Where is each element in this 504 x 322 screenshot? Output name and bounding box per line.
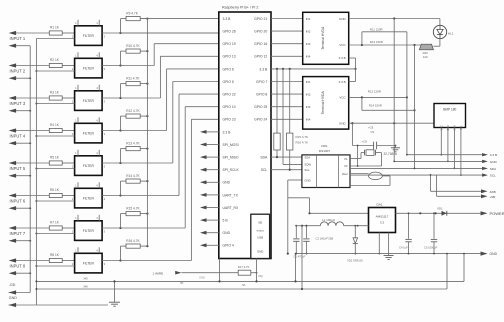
svg-text:R2 1K: R2 1K: [50, 58, 60, 62]
svg-text:L1 100uH: L1 100uH: [322, 218, 335, 222]
svg-text:+5B: +5B: [490, 195, 496, 199]
svg-text:C4 1uF: C4 1uF: [399, 245, 408, 249]
svg-text:X1: X1: [344, 157, 348, 161]
svg-text:GND: GND: [9, 296, 17, 300]
svg-text:GPIO 24: GPIO 24: [254, 118, 267, 122]
svg-text:+C8: +C8: [362, 140, 368, 144]
svg-text:R8 1K: R8 1K: [50, 253, 60, 257]
svg-text:IN1: IN1: [306, 17, 311, 21]
svg-text:3.3 B: 3.3 B: [259, 67, 268, 71]
svg-text:INPUT 4: INPUT 4: [10, 134, 26, 139]
svg-text:UART_TX: UART_TX: [223, 193, 239, 197]
svg-text:FILTER: FILTER: [83, 261, 95, 265]
svg-text:-GD: -GD: [9, 283, 16, 287]
svg-text:FILTER: FILTER: [83, 196, 95, 200]
svg-text:SPI_SCLK: SPI_SCLK: [223, 168, 240, 172]
svg-text:SPI_MOSI: SPI_MOSI: [223, 143, 239, 147]
svg-text:R12 120R: R12 120R: [368, 90, 381, 94]
svg-text:R6 1K: R6 1K: [50, 188, 60, 192]
svg-text:POWER: POWER: [490, 211, 504, 216]
svg-text:J46: J46: [83, 284, 88, 288]
svg-text:FILTER: FILTER: [83, 99, 95, 103]
svg-text:GND: GND: [223, 181, 231, 185]
svg-text:R15 4.7K: R15 4.7K: [296, 135, 309, 139]
svg-text:+C8: +C8: [368, 126, 374, 130]
svg-text:R12 4.7K: R12 4.7K: [126, 109, 140, 113]
svg-text:32,768Hz: 32,768Hz: [384, 152, 398, 156]
svg-text:GND: GND: [339, 121, 347, 125]
svg-text:VCC: VCC: [339, 43, 346, 47]
svg-text:DA1: DA1: [377, 202, 383, 206]
svg-text:R11 120R: R11 120R: [370, 27, 383, 31]
svg-text:GPIO 21: GPIO 21: [254, 17, 267, 21]
svg-text:SCL: SCL: [460, 125, 463, 130]
svg-text:Vbat: Vbat: [342, 172, 348, 176]
svg-text:5 B: 5 B: [223, 219, 229, 223]
svg-text:Terminal HVDA: Terminal HVDA: [321, 91, 325, 115]
svg-text:IN3: IN3: [306, 105, 311, 109]
svg-text:R5 1K: R5 1K: [50, 156, 60, 160]
svg-text:GPIO 8: GPIO 8: [256, 93, 267, 97]
svg-text:INPUT 7: INPUT 7: [10, 231, 26, 236]
svg-text:IN2: IN2: [306, 29, 311, 33]
svg-text:GPIO 26: GPIO 26: [223, 30, 236, 34]
svg-text:SQW: SQW: [304, 163, 311, 167]
svg-text:120: 120: [423, 55, 428, 59]
svg-text:SCL: SCL: [304, 168, 310, 172]
svg-text:R1 1K: R1 1K: [50, 26, 60, 30]
svg-text:INPUT 5: INPUT 5: [10, 166, 26, 171]
svg-text:GND: GND: [447, 125, 450, 131]
svg-text:SDA: SDA: [490, 167, 497, 171]
svg-text:SCL: SCL: [490, 174, 496, 178]
svg-text:VD1: VD1: [437, 206, 443, 210]
svg-text:IN4: IN4: [306, 118, 311, 122]
svg-text:X2: X2: [344, 164, 348, 168]
svg-text:AKB: AKB: [490, 190, 496, 194]
svg-text:FILTER: FILTER: [83, 164, 95, 168]
svg-text:1 WIRE: 1 WIRE: [153, 271, 164, 275]
svg-text:SDA: SDA: [260, 156, 268, 160]
svg-text:3.3 B: 3.3 B: [339, 56, 346, 60]
svg-text:5B: 5B: [180, 281, 184, 285]
svg-text:3.3 B: 3.3 B: [223, 130, 232, 134]
svg-text:INPUT 2: INPUT 2: [10, 69, 26, 74]
svg-text:3.3 B: 3.3 B: [339, 80, 346, 84]
svg-text:R10 4.7K: R10 4.7K: [126, 44, 140, 48]
svg-text:C9: C9: [371, 130, 375, 134]
svg-text:HL1: HL1: [448, 31, 454, 35]
svg-text:R4 1K: R4 1K: [50, 123, 60, 127]
svg-text:GPIO 12: GPIO 12: [254, 55, 267, 59]
svg-text:UART_RX: UART_RX: [223, 206, 240, 210]
svg-text:FILTER: FILTER: [83, 229, 95, 233]
svg-text:GPIO 25: GPIO 25: [254, 105, 267, 109]
svg-text:GND: GND: [199, 276, 205, 280]
svg-text:GPIO 16: GPIO 16: [254, 42, 267, 46]
svg-text:INPUT 8: INPUT 8: [10, 264, 26, 269]
svg-text:AMS1117: AMS1117: [376, 215, 389, 219]
svg-text:5B: 5B: [242, 283, 246, 287]
svg-text:R11 4.7K: R11 4.7K: [126, 76, 140, 80]
svg-text:J45: J45: [83, 277, 88, 281]
svg-text:GPIO 20: GPIO 20: [254, 30, 267, 34]
svg-text:3.3: 3.3: [380, 221, 385, 225]
svg-text:R9 4.7K: R9 4.7K: [126, 11, 138, 15]
svg-text:GND: GND: [490, 252, 498, 256]
svg-text:GND: GND: [304, 178, 310, 182]
svg-text:DS1307: DS1307: [319, 149, 330, 153]
svg-text:C2 160uF*25B: C2 160uF*25B: [316, 237, 334, 241]
svg-text:VD2 SR5100: VD2 SR5100: [347, 258, 363, 262]
svg-text:IN2: IN2: [306, 92, 311, 96]
svg-text:USB: USB: [257, 236, 263, 240]
svg-text:INPUT 1: INPUT 1: [10, 36, 26, 41]
svg-text:GPIO 7: GPIO 7: [256, 80, 267, 84]
svg-text:IN1: IN1: [306, 80, 311, 84]
svg-text:VCC: VCC: [339, 96, 346, 100]
svg-text:R13 4.7K: R13 4.7K: [126, 141, 140, 145]
svg-text:BMP 180: BMP 180: [443, 107, 456, 111]
svg-text:IN3: IN3: [306, 42, 311, 46]
svg-text:GPIO 23: GPIO 23: [223, 118, 236, 122]
svg-text:DD1: DD1: [321, 144, 327, 148]
svg-text:GPIO 19: GPIO 19: [223, 42, 236, 46]
svg-text:GPIO 22: GPIO 22: [223, 93, 236, 97]
svg-text:R7 1K: R7 1K: [50, 221, 60, 225]
svg-text:INPUT 6: INPUT 6: [10, 199, 26, 204]
svg-text:GPIO 4: GPIO 4: [223, 244, 234, 248]
svg-text:SDA: SDA: [454, 125, 457, 130]
svg-text:Raspberry Pi B+ / Pi 2: Raspberry Pi B+ / Pi 2: [222, 6, 258, 10]
svg-text:FILTER: FILTER: [83, 131, 95, 135]
svg-text:Terminal HVDA: Terminal HVDA: [321, 26, 325, 50]
svg-text:FILTER: FILTER: [83, 34, 95, 38]
svg-text:VCC: VCC: [440, 125, 443, 130]
svg-text:GND: GND: [490, 160, 498, 164]
svg-text:GND: GND: [257, 250, 263, 254]
svg-text:GPIO 5: GPIO 5: [223, 80, 234, 84]
svg-text:micro: micro: [257, 229, 264, 233]
svg-text:3.3 B: 3.3 B: [223, 17, 232, 21]
svg-text:GPIO 10: GPIO 10: [223, 105, 236, 109]
svg-text:R14 4.7K: R14 4.7K: [126, 174, 140, 178]
svg-text:R16 4.7K: R16 4.7K: [296, 141, 309, 145]
svg-text:SCL: SCL: [261, 168, 268, 172]
svg-text:GPIO 13: GPIO 13: [223, 55, 236, 59]
svg-text:GPIO 6: GPIO 6: [223, 67, 234, 71]
svg-text:IN4: IN4: [306, 55, 311, 59]
svg-text:R16 4.7K: R16 4.7K: [126, 239, 140, 243]
svg-text:R13 150R: R13 150R: [370, 40, 383, 44]
svg-text:GND: GND: [223, 231, 231, 235]
svg-text:R14 150R: R14 150R: [369, 104, 382, 108]
svg-text:3.3 B: 3.3 B: [490, 153, 497, 157]
svg-text:FILTER: FILTER: [83, 66, 95, 70]
svg-text:GND: GND: [339, 17, 347, 21]
svg-text:R15 4.7K: R15 4.7K: [126, 206, 140, 210]
svg-text:SPI_MISO: SPI_MISO: [223, 156, 239, 160]
svg-text:C5 1000uF: C5 1000uF: [424, 245, 438, 249]
svg-text:5B: 5B: [258, 221, 262, 225]
svg-text:SDA: SDA: [304, 155, 310, 159]
svg-text:R17 4.7K: R17 4.7K: [238, 265, 250, 269]
svg-text:INPUT 3: INPUT 3: [10, 101, 26, 106]
svg-text:R3 1K: R3 1K: [50, 91, 60, 95]
